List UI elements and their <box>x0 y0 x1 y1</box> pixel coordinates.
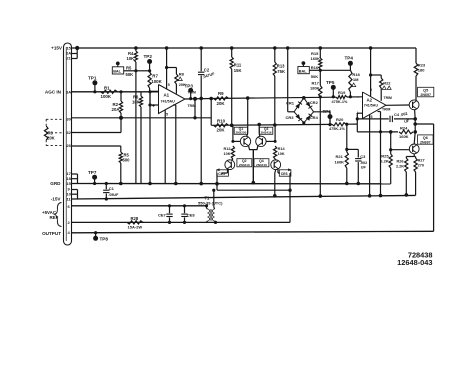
svg-text:10K: 10K <box>132 100 140 105</box>
svg-text:TP7: TP7 <box>88 170 97 175</box>
svg-text:−: − <box>153 89 156 95</box>
op-amp A2 741/5AU <box>356 88 386 119</box>
test point TP6 <box>323 109 333 125</box>
resistor R26 2.2K <box>396 154 414 197</box>
test point TP1 <box>88 76 97 94</box>
wire +15V pin jumper <box>72 46 80 59</box>
transistor Q5 2N697 <box>409 87 434 109</box>
svg-text:741/5AU: 741/5AU <box>161 100 176 104</box>
test point TP2 <box>144 54 153 71</box>
wire A2 pin5 to -15V rail <box>368 115 372 198</box>
test point TP7 <box>88 170 97 185</box>
svg-text:GRD: GRD <box>50 181 61 186</box>
svg-text:475K-1%: 475K-1% <box>329 127 345 131</box>
svg-text:.002: .002 <box>360 161 367 165</box>
capacitor C3 .002UF <box>345 148 367 186</box>
svg-text:R20: R20 <box>336 117 344 122</box>
svg-text:10K: 10K <box>127 56 135 61</box>
svg-text:R10: R10 <box>217 118 226 123</box>
wire R17 leg to -15V rail <box>319 97 323 198</box>
resistor R24 160K <box>399 119 417 139</box>
svg-text:R13: R13 <box>277 64 285 69</box>
wire pin 32 jumper to pin30 line <box>72 116 124 133</box>
svg-text:15K: 15K <box>234 68 242 73</box>
svg-text:TP1: TP1 <box>88 76 97 81</box>
svg-text:20A: 20A <box>112 107 121 112</box>
svg-text:500: 500 <box>123 158 131 163</box>
net label GRD <box>50 181 61 186</box>
svg-text:10K: 10K <box>224 152 231 156</box>
wire A1 non-inverting input <box>148 92 158 107</box>
resistor R5 500 (pin 26 leg) <box>119 152 130 185</box>
svg-text:BAL: BAL <box>299 69 307 73</box>
wire feedback line R24 left end <box>357 124 398 132</box>
transformer T1 550-39 (UTC) <box>198 189 223 224</box>
wire Q6 base line <box>389 148 409 151</box>
svg-text:C1: C1 <box>109 186 115 191</box>
resistor R6 10K <box>132 92 143 184</box>
test point TP4 <box>345 56 354 71</box>
wire Q1 base to R12 <box>231 125 240 143</box>
test point TP5 <box>326 80 336 98</box>
resistor R27 270 <box>414 157 425 196</box>
net label AGC IN <box>45 90 62 95</box>
net label OUTPUT <box>42 231 61 236</box>
transistor Q1 2N3250 <box>234 127 251 146</box>
svg-text:12648-043: 12648-043 <box>397 258 432 267</box>
wire -15V rail <box>72 190 416 200</box>
svg-text:32: 32 <box>66 130 71 135</box>
svg-text:.05UF: .05UF <box>108 193 119 197</box>
capacitor CE6 <box>278 168 291 176</box>
net label +15V <box>51 46 63 51</box>
resistor R20 475K-1% <box>329 117 346 131</box>
drawing number 12648-043 <box>397 258 432 267</box>
svg-text:20K: 20K <box>217 128 226 133</box>
svg-text:−: − <box>357 95 360 101</box>
svg-text:160K: 160K <box>311 56 321 61</box>
svg-text:10K: 10K <box>278 152 285 156</box>
wire +5VAC line pin 6 <box>72 205 207 207</box>
svg-text:180K: 180K <box>310 86 320 91</box>
svg-text:2.2K: 2.2K <box>396 165 404 169</box>
resistor R10 20K <box>214 118 229 132</box>
svg-text:R11: R11 <box>234 63 242 68</box>
svg-text:3A: 3A <box>66 89 71 94</box>
resistor R16 50K <box>309 65 322 79</box>
wire Q3 collector leg <box>257 123 261 137</box>
transistor Q3 2N3416 <box>256 127 273 146</box>
svg-text:CR4: CR4 <box>310 115 319 120</box>
resistor R28 15A-2W <box>127 216 143 230</box>
wire A1 inverting input <box>150 90 159 92</box>
wire A1 output <box>185 98 211 101</box>
svg-text:R7: R7 <box>152 74 158 79</box>
svg-text:2N3416: 2N3416 <box>261 131 272 135</box>
svg-text:160K: 160K <box>335 160 345 165</box>
wire Q1 Q3 emitters junction <box>249 146 258 185</box>
drawing number 728438 <box>408 250 433 259</box>
resistor R19 475K-1% <box>332 90 348 104</box>
svg-text:CE5: CE5 <box>218 172 225 176</box>
wire BAL2 node to TP4 <box>320 69 350 71</box>
net label -15V <box>51 197 62 202</box>
capacitor C1 .05UF <box>103 182 119 201</box>
svg-text:20K: 20K <box>179 83 186 87</box>
wire Q4 emitter to -15V rail <box>273 170 277 198</box>
svg-text:TP8: TP8 <box>100 236 109 241</box>
svg-text:R26: R26 <box>397 160 404 164</box>
edge connector J1 <box>64 43 72 245</box>
wire signal line to A2 <box>211 97 362 99</box>
potentiometer BAL (A1 balance) <box>112 62 123 75</box>
svg-text:A2: A2 <box>367 98 373 103</box>
svg-text:2N3250: 2N3250 <box>235 131 246 135</box>
capacitor CE8 <box>181 204 195 224</box>
svg-text:21: 21 <box>66 56 71 61</box>
svg-text:50K: 50K <box>126 72 134 77</box>
svg-text:TP5: TP5 <box>326 80 335 85</box>
wire pin 30 gain-select line <box>72 97 212 120</box>
resistor R5 50K <box>124 65 138 77</box>
svg-text:1M: 1M <box>353 77 359 82</box>
wire Q1 collector leg <box>246 96 250 136</box>
svg-text:Q5: Q5 <box>423 88 428 92</box>
svg-text:2N697: 2N697 <box>420 140 431 144</box>
wire op-amp A1 trim leg to ground <box>174 108 178 186</box>
resistor R15 160K <box>311 46 323 70</box>
svg-text:R5: R5 <box>126 65 132 70</box>
test point TP8 <box>93 231 108 241</box>
svg-text:20K: 20K <box>47 136 55 141</box>
transistor Q4 2N3416 <box>254 159 281 170</box>
svg-text:CE8: CE8 <box>187 212 196 217</box>
capacitor C2 .047UF <box>198 46 216 100</box>
wire R5 branch to ground <box>135 71 137 184</box>
svg-text:6.2K: 6.2K <box>380 159 389 164</box>
capacitor C4 .002UF <box>356 112 416 124</box>
connector pin numbers <box>66 46 72 236</box>
wire AGC input line <box>72 91 159 93</box>
net label +5VAC REF with brace <box>42 203 61 227</box>
capacitor CE5 <box>215 168 228 190</box>
svg-text:CR3: CR3 <box>286 115 295 120</box>
resistor R2 20K <box>112 90 123 118</box>
transistor Q6 2N697 <box>409 132 433 154</box>
svg-text:15: 15 <box>66 181 71 186</box>
svg-text:UF: UF <box>361 166 367 170</box>
svg-text:TRIM: TRIM <box>384 96 392 100</box>
svg-text:R1: R1 <box>104 85 110 90</box>
svg-text:R16: R16 <box>311 65 319 70</box>
svg-text:2N3416: 2N3416 <box>239 163 250 167</box>
wire C2 leg to ground <box>199 98 203 185</box>
svg-text:15A-2W: 15A-2W <box>128 224 143 229</box>
wire bridge right vertex to TP6 <box>314 112 332 126</box>
svg-text:R19: R19 <box>338 90 346 95</box>
svg-text:30: 30 <box>66 117 71 122</box>
resistor R7 100K <box>148 69 163 91</box>
resistor R25 6.2K <box>380 130 392 184</box>
svg-text:TRIM: TRIM <box>188 91 196 95</box>
svg-text:20K: 20K <box>217 101 226 106</box>
resistor R3 (dashed option) <box>44 119 63 145</box>
resistor R8 20K trim <box>165 46 186 94</box>
svg-text:550-39 (UTC): 550-39 (UTC) <box>198 201 223 206</box>
svg-text:TP2: TP2 <box>144 54 153 59</box>
svg-text:R22: R22 <box>383 81 391 86</box>
svg-text:R21: R21 <box>336 154 344 159</box>
svg-text:CR2: CR2 <box>310 100 319 105</box>
svg-text:160K: 160K <box>399 134 409 139</box>
svg-text:A1: A1 <box>164 93 170 98</box>
svg-text:100K: 100K <box>101 94 112 99</box>
resistor R22 trim <box>369 46 392 101</box>
resistor R12 10K <box>224 146 235 161</box>
op-amp A1 741/5AU <box>152 83 185 117</box>
svg-text:-15V: -15V <box>51 197 62 202</box>
wire BAL node to R7 <box>136 70 150 72</box>
svg-text:5: 5 <box>168 83 170 87</box>
wire emitter bus line <box>217 189 292 192</box>
svg-text:R8: R8 <box>179 72 185 77</box>
wire OUTPUT line <box>72 124 434 233</box>
svg-text:TP4: TP4 <box>345 56 354 61</box>
resistor R18 1M <box>349 70 361 98</box>
svg-text:BAL: BAL <box>113 70 121 74</box>
svg-text:+: + <box>356 111 359 117</box>
svg-text:2N3416: 2N3416 <box>256 163 267 167</box>
svg-text:50K: 50K <box>311 74 318 79</box>
svg-text:R27: R27 <box>418 159 425 163</box>
wire bias line <box>211 124 357 125</box>
svg-text:R12: R12 <box>224 147 231 151</box>
svg-text:AGC IN: AGC IN <box>45 90 62 95</box>
wire +15V top rail <box>72 47 417 49</box>
svg-text:2N697: 2N697 <box>420 93 431 97</box>
svg-text:CE7: CE7 <box>158 212 167 217</box>
svg-text:Q6: Q6 <box>423 136 428 140</box>
resistor R4 10K <box>127 46 138 71</box>
capacitor CE7 <box>158 204 173 224</box>
svg-text:+15V: +15V <box>51 46 63 51</box>
svg-text:R9: R9 <box>218 91 224 96</box>
diode bridge CR1 CR2 CR3 CR4 <box>286 96 319 124</box>
resistor R1 100K <box>101 85 118 99</box>
svg-text:5: 5 <box>166 113 168 117</box>
svg-text:741/5AU: 741/5AU <box>364 104 379 108</box>
potentiometer BAL (A2 balance) <box>298 61 309 74</box>
resistor R21 160K <box>335 123 349 186</box>
svg-text:75K: 75K <box>277 69 285 74</box>
resistor R14 10K <box>274 146 286 161</box>
wire +5VAC line pin 2 <box>72 173 291 222</box>
resistor R17 180K <box>310 70 322 98</box>
svg-text:270: 270 <box>418 164 424 168</box>
svg-text:CE6: CE6 <box>281 172 288 176</box>
resistor R23 180 <box>414 48 426 100</box>
svg-text:TRIM: TRIM <box>188 104 196 108</box>
wire non-inverting input ground leg <box>148 90 152 185</box>
svg-text:C2: C2 <box>204 68 210 73</box>
wire A2 lower trim leg <box>378 108 391 198</box>
wire Q5 emitter node <box>413 110 433 126</box>
svg-text:TRIM: TRIM <box>382 108 390 112</box>
svg-text:OUTPUT: OUTPUT <box>42 231 61 236</box>
wire Q3 base to R14 <box>266 125 277 143</box>
svg-text:CR1: CR1 <box>286 101 295 106</box>
wire A2 output to Q5 base <box>386 104 409 106</box>
svg-text:R24: R24 <box>400 125 408 130</box>
svg-text:R14: R14 <box>278 147 286 151</box>
svg-text:R28: R28 <box>131 216 139 221</box>
resistor R13 75K <box>273 46 285 127</box>
wire pin 26 line <box>72 146 121 152</box>
svg-text:100K: 100K <box>151 79 162 84</box>
svg-text:TP3: TP3 <box>185 84 194 89</box>
transistor Q2 2N3416 <box>225 159 252 170</box>
resistor R9 20K <box>209 91 228 106</box>
wire R20 to A2 non-inverting input <box>357 113 362 124</box>
resistor R11 15K <box>230 46 242 127</box>
svg-text:C3: C3 <box>360 154 366 159</box>
wire A1 lower trim stub <box>173 91 196 109</box>
test point TP3 <box>185 84 194 101</box>
wire GRD rail <box>72 174 391 184</box>
wire bridge left leg to +15V rail <box>286 46 294 112</box>
svg-text:475K-1%: 475K-1% <box>332 100 348 104</box>
wire op-amp A1 pin 5 to ground <box>164 110 166 183</box>
wire R9/R10 junction leg <box>210 99 212 126</box>
svg-text:26: 26 <box>66 143 71 148</box>
svg-text:180: 180 <box>418 68 425 73</box>
